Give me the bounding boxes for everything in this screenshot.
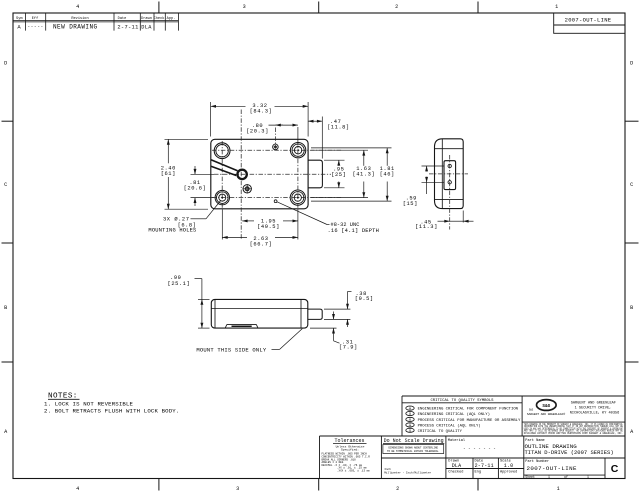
label 8-32 UNC with leader bbox=[277, 202, 379, 234]
revision table bbox=[13, 13, 178, 31]
material block bbox=[448, 438, 496, 452]
front view bolt bbox=[308, 160, 322, 188]
dimension 2.40 [61] body height bbox=[161, 139, 208, 209]
svg-text:Approved: Approved bbox=[500, 469, 517, 474]
svg-text:2-7-11: 2-7-11 bbox=[117, 24, 138, 30]
mount this side only label bbox=[196, 329, 302, 354]
svg-text:4: 4 bbox=[76, 4, 80, 10]
dimension 3.32 [84.3] overall width bbox=[211, 102, 309, 137]
svg-text:Millimeter - Inch/Millimeter: Millimeter - Inch/Millimeter bbox=[384, 471, 431, 475]
ctq symbol row CE bbox=[406, 411, 490, 417]
svg-text:TITAN D-DRIVE (2007 SERIES): TITAN D-DRIVE (2007 SERIES) bbox=[525, 449, 614, 456]
svg-text:[20.6]: [20.6] bbox=[184, 186, 207, 192]
dimension .38 [9.5] bolt thickness bbox=[324, 291, 374, 327]
svg-text:Part Number: Part Number bbox=[525, 459, 549, 464]
part number block bbox=[525, 459, 577, 472]
dimension .99 [25.1] body thickness bbox=[168, 275, 210, 328]
svg-text:2-7-11: 2-7-11 bbox=[475, 463, 494, 469]
lever pivot ring bbox=[237, 170, 246, 179]
svg-text:S&G: S&G bbox=[542, 404, 550, 409]
svg-text:Drawn: Drawn bbox=[141, 16, 152, 21]
svg-text:DLA: DLA bbox=[141, 24, 152, 30]
do not scale drawing block bbox=[383, 438, 444, 474]
svg-text:A: A bbox=[4, 429, 8, 435]
side view body bbox=[435, 139, 464, 209]
dimension .80 [20.3] bbox=[246, 123, 298, 141]
svg-text:[20.3]: [20.3] bbox=[246, 128, 269, 134]
spindle hole top-left bbox=[214, 143, 230, 159]
svg-text:DISCLOSED WITHOUT PRIOR WRITTE: DISCLOSED WITHOUT PRIOR WRITTEN PERMISSI… bbox=[524, 432, 623, 435]
drawn date scale row bbox=[448, 458, 517, 474]
svg-text:Sym: Sym bbox=[16, 17, 22, 21]
svg-text:1.0: 1.0 bbox=[504, 463, 514, 469]
svg-text:[41.3]: [41.3] bbox=[352, 172, 375, 178]
svg-text:Eff: Eff bbox=[32, 16, 38, 21]
svg-text:1: 1 bbox=[557, 486, 561, 492]
profile view body bbox=[211, 299, 307, 328]
dimension 2.63 [66.7] bbox=[222, 210, 298, 248]
svg-text:PROCESS CRITICAL FOR MANUFACTU: PROCESS CRITICAL FOR MANUFACTURE OR ASSE… bbox=[418, 419, 521, 423]
svg-text:ENGINEERING CRITICAL FOR COMPO: ENGINEERING CRITICAL FOR COMPONENT FUNCT… bbox=[418, 408, 519, 412]
critical to quality symbols header bbox=[402, 399, 522, 403]
svg-text:SARGENT AND GREENLEAF: SARGENT AND GREENLEAF bbox=[571, 401, 616, 405]
svg-text:ENGINEERING CRITICAL (AQL ONLY: ENGINEERING CRITICAL (AQL ONLY) bbox=[418, 412, 490, 417]
svg-text:TO BE SYMMETRICAL WITHIN TOLER: TO BE SYMMETRICAL WITHIN TOLERANCE. bbox=[387, 450, 440, 453]
dimension .81 [20.6] bbox=[184, 166, 214, 206]
svg-text:[15]: [15] bbox=[403, 201, 418, 207]
svg-text:-----: ----- bbox=[27, 25, 44, 30]
svg-text:2. BOLT RETRACTS FLUSH WITH LO: 2. BOLT RETRACTS FLUSH WITH LOCK BODY. bbox=[44, 408, 179, 415]
dimension .59 [15] plate holes bbox=[403, 166, 445, 207]
svg-text:.XXX ± .005, ± .13 mm: .XXX ± .005, ± .13 mm bbox=[337, 469, 370, 472]
svg-text:2007-OUT-LINE: 2007-OUT-LINE bbox=[565, 17, 612, 24]
svg-text:Specified:: Specified: bbox=[341, 447, 359, 451]
svg-text:C: C bbox=[630, 182, 634, 188]
svg-text:1: 1 bbox=[548, 475, 550, 479]
svg-text:[9.5]: [9.5] bbox=[355, 296, 374, 302]
svg-text:D: D bbox=[4, 61, 8, 67]
svg-text:3X Ø.27: 3X Ø.27 bbox=[163, 215, 190, 222]
profile bolt bbox=[308, 309, 322, 319]
svg-text:B: B bbox=[4, 305, 8, 311]
svg-text:1: 1 bbox=[587, 475, 589, 479]
svg-text:Sheet: Sheet bbox=[525, 475, 535, 479]
svg-text:[7.9]: [7.9] bbox=[339, 344, 358, 350]
svg-text:[11.8]: [11.8] bbox=[327, 124, 350, 130]
svg-text:Revision: Revision bbox=[71, 16, 88, 21]
svg-text:2: 2 bbox=[395, 4, 399, 10]
title block outline bbox=[320, 396, 626, 479]
svg-text:B: B bbox=[630, 305, 634, 311]
ctq symbol row CQ bbox=[406, 428, 463, 434]
svg-text:1: 1 bbox=[555, 4, 559, 10]
top-right part number box bbox=[554, 13, 625, 33]
front view lock body bbox=[211, 139, 308, 209]
side view mounting plate bbox=[444, 161, 456, 190]
part name block bbox=[525, 438, 614, 456]
svg-text:2: 2 bbox=[396, 486, 400, 492]
svg-text:NEW DRAWING: NEW DRAWING bbox=[53, 23, 98, 30]
svg-text:[61]: [61] bbox=[161, 171, 176, 177]
svg-text:C: C bbox=[4, 182, 8, 188]
svg-text:S&G: S&G bbox=[529, 408, 534, 411]
ctq symbol row PM bbox=[406, 417, 521, 423]
small screw below pivot bbox=[243, 184, 252, 193]
svg-text:[46]: [46] bbox=[380, 172, 395, 178]
svg-text:1 SECURITY DRIVE,: 1 SECURITY DRIVE, bbox=[575, 406, 612, 410]
svg-text:[66.7]: [66.7] bbox=[250, 242, 273, 248]
dimension 1.63 [41.3] hole spacing bbox=[311, 150, 375, 197]
company address bbox=[570, 401, 620, 415]
svg-text:C: C bbox=[611, 463, 619, 475]
svg-text:Material: Material bbox=[448, 438, 465, 443]
svg-text:.16 [4.1] DEPTH: .16 [4.1] DEPTH bbox=[328, 228, 380, 234]
dimension .95 [25] bolt width bbox=[324, 160, 346, 188]
tolerances block bbox=[322, 438, 371, 472]
notes bbox=[44, 393, 179, 415]
svg-text:Check: Check bbox=[154, 16, 165, 21]
sheet row bbox=[525, 475, 589, 479]
sargent and greenleaf logo bbox=[527, 400, 565, 416]
svg-text:Date: Date bbox=[118, 17, 127, 21]
svg-text:CRITICAL TO QUALITY: CRITICAL TO QUALITY bbox=[418, 430, 463, 434]
svg-text:MOUNT THIS SIDE ONLY: MOUNT THIS SIDE ONLY bbox=[196, 347, 267, 354]
svg-text:[49.5]: [49.5] bbox=[257, 224, 280, 230]
profile mounting notch bbox=[225, 324, 258, 328]
svg-text:4: 4 bbox=[76, 486, 80, 492]
svg-text:- - - - - - -: - - - - - - - bbox=[463, 447, 496, 451]
dimension .31 [7.9] bbox=[310, 312, 358, 351]
#8-32 tapped hole bbox=[274, 200, 277, 203]
ctq symbol row PA bbox=[406, 423, 481, 429]
mounting hole bottom-left bbox=[215, 190, 229, 204]
svg-text:Checked: Checked bbox=[448, 469, 463, 474]
dimension 1.95 [49.5] bbox=[242, 219, 298, 230]
countersunk screw hole top-center bbox=[273, 144, 279, 150]
dimension 1.81 [46] bbox=[311, 148, 395, 201]
proprietary small print bbox=[524, 423, 623, 435]
mounting hole top-right bbox=[290, 143, 305, 158]
svg-text:[84.3]: [84.3] bbox=[250, 109, 273, 115]
front view centerlines bbox=[212, 110, 342, 241]
svg-text:3: 3 bbox=[236, 486, 240, 492]
svg-text:A: A bbox=[630, 429, 634, 435]
svg-text:Inch: Inch bbox=[384, 467, 391, 471]
svg-text:A: A bbox=[17, 23, 21, 30]
label 3X mounting holes with leader bbox=[148, 201, 220, 234]
svg-text:of: of bbox=[564, 475, 568, 479]
svg-text:MOUNTING HOLES: MOUNTING HOLES bbox=[148, 228, 196, 234]
svg-text:DLA: DLA bbox=[452, 463, 462, 469]
svg-text:D: D bbox=[630, 61, 634, 67]
dimension .45 [11.3] bbox=[415, 211, 473, 231]
mounting hole bottom-right bbox=[290, 190, 305, 205]
svg-text:PROCESS CRITICAL (AQL ONLY): PROCESS CRITICAL (AQL ONLY) bbox=[418, 423, 481, 428]
lever arm bbox=[211, 160, 238, 176]
svg-text:3: 3 bbox=[243, 4, 247, 10]
svg-text:App.: App. bbox=[167, 17, 176, 21]
svg-text:NICHOLASVILLE, KY 40356: NICHOLASVILLE, KY 40356 bbox=[570, 411, 620, 415]
svg-text:Eng: Eng bbox=[475, 470, 481, 474]
side view centerlines bbox=[429, 155, 468, 230]
svg-text:[11.3]: [11.3] bbox=[415, 224, 438, 230]
svg-text:[25.1]: [25.1] bbox=[168, 281, 191, 287]
svg-text:[25]: [25] bbox=[331, 172, 346, 178]
ctq symbol row CF bbox=[406, 406, 519, 412]
dimension .47 [11.8] bolt throw bbox=[308, 117, 350, 159]
svg-text:SARGENT AND GREENLEAF®: SARGENT AND GREENLEAF® bbox=[527, 412, 565, 416]
svg-text:2007-OUT-LINE: 2007-OUT-LINE bbox=[527, 465, 578, 472]
